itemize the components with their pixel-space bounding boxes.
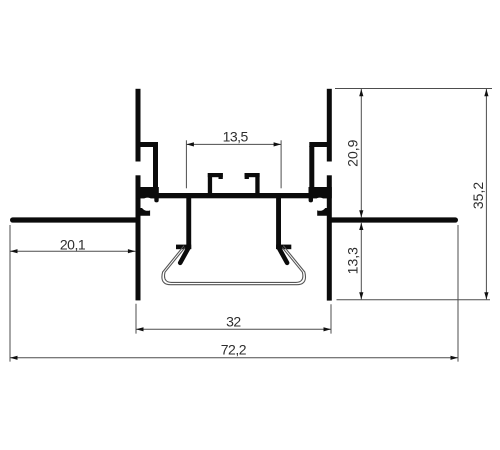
svg-text:13,3: 13,3 bbox=[344, 247, 360, 274]
dim 32 left extension line bbox=[135, 304, 137, 334]
arrow 13,5 right bbox=[274, 142, 282, 146]
right wall bar lower segment bbox=[327, 175, 332, 300]
dim 32 line bbox=[136, 328, 331, 330]
spring clip outer outline bbox=[162, 246, 306, 285]
dim 13,5 line bbox=[186, 143, 281, 145]
right drop foot bbox=[276, 245, 291, 250]
arrow 20,9 up bbox=[359, 89, 363, 96]
dim 20,1 line bbox=[10, 250, 135, 252]
right screw boss hole bbox=[313, 198, 326, 211]
left junction block bbox=[136, 187, 159, 198]
arrow 35,2 down bbox=[484, 292, 488, 299]
arrow 20,9 down bbox=[359, 210, 363, 217]
right wall bar upper segment bbox=[327, 89, 332, 162]
left tab top bbox=[208, 173, 223, 177]
right drop wall bbox=[276, 198, 281, 249]
svg-text:35,2: 35,2 bbox=[470, 182, 486, 209]
central bar bbox=[140, 193, 328, 198]
left hook leg bbox=[153, 146, 158, 190]
svg-text:32: 32 bbox=[226, 314, 241, 330]
arrow 72,2 left bbox=[10, 356, 18, 360]
right hook leg bbox=[309, 146, 314, 190]
dim 13,5 right extension line bbox=[280, 140, 282, 188]
left drop foot bbox=[176, 245, 191, 250]
right tab stub bbox=[245, 173, 249, 179]
right tab top bbox=[245, 173, 260, 177]
dim 72,2 line bbox=[10, 357, 458, 359]
dim 13,5 left extension line bbox=[185, 140, 187, 188]
arrow 32 right bbox=[324, 327, 332, 331]
arrow 72,2 right bbox=[451, 356, 459, 360]
arrow 13,5 left bbox=[186, 142, 194, 146]
left wall bar lower segment bbox=[136, 175, 141, 300]
dim 13,3 line bbox=[360, 223, 362, 300]
right junction block bbox=[309, 187, 332, 198]
bottom extension line bbox=[337, 299, 491, 301]
svg-text:20,9: 20,9 bbox=[344, 139, 360, 166]
left tab stub bbox=[219, 173, 223, 179]
arrow 13,3 down bbox=[359, 292, 363, 299]
left drop finger bbox=[180, 248, 188, 262]
left tab leg bbox=[208, 173, 212, 193]
svg-text:72,2: 72,2 bbox=[221, 342, 247, 358]
right wing tip extension line bbox=[457, 225, 459, 362]
right drop finger bbox=[279, 248, 287, 262]
top extension line bbox=[335, 88, 492, 90]
spring clip inner outline bbox=[165, 248, 303, 283]
left hook horizontal bbox=[140, 142, 158, 147]
left wall bar upper segment bbox=[136, 89, 141, 162]
left screw boss tongue bbox=[154, 195, 158, 202]
left screw boss foot bbox=[137, 208, 150, 216]
right tab leg bbox=[255, 173, 259, 193]
arrow 35,2 up bbox=[484, 89, 488, 96]
svg-text:13,5: 13,5 bbox=[223, 128, 249, 144]
arrow 13,3 up bbox=[359, 223, 363, 230]
left drop wall bbox=[186, 198, 191, 249]
right hook horizontal bbox=[309, 142, 327, 147]
arrow 20,1 right bbox=[128, 249, 135, 253]
right screw boss foot bbox=[317, 208, 330, 216]
left wing tip extension line bbox=[9, 225, 11, 362]
right wing bbox=[331, 217, 455, 222]
dim 35,2 line bbox=[485, 89, 487, 299]
left screw boss hole bbox=[141, 198, 154, 211]
dim 20,9 line bbox=[360, 89, 362, 217]
arrow 20,1 left bbox=[10, 249, 18, 253]
arrow 32 left bbox=[136, 327, 144, 331]
left wing bbox=[13, 217, 136, 222]
svg-text:20,1: 20,1 bbox=[60, 236, 86, 252]
dim 32 right extension line bbox=[330, 304, 332, 333]
right screw boss tongue bbox=[309, 195, 313, 202]
